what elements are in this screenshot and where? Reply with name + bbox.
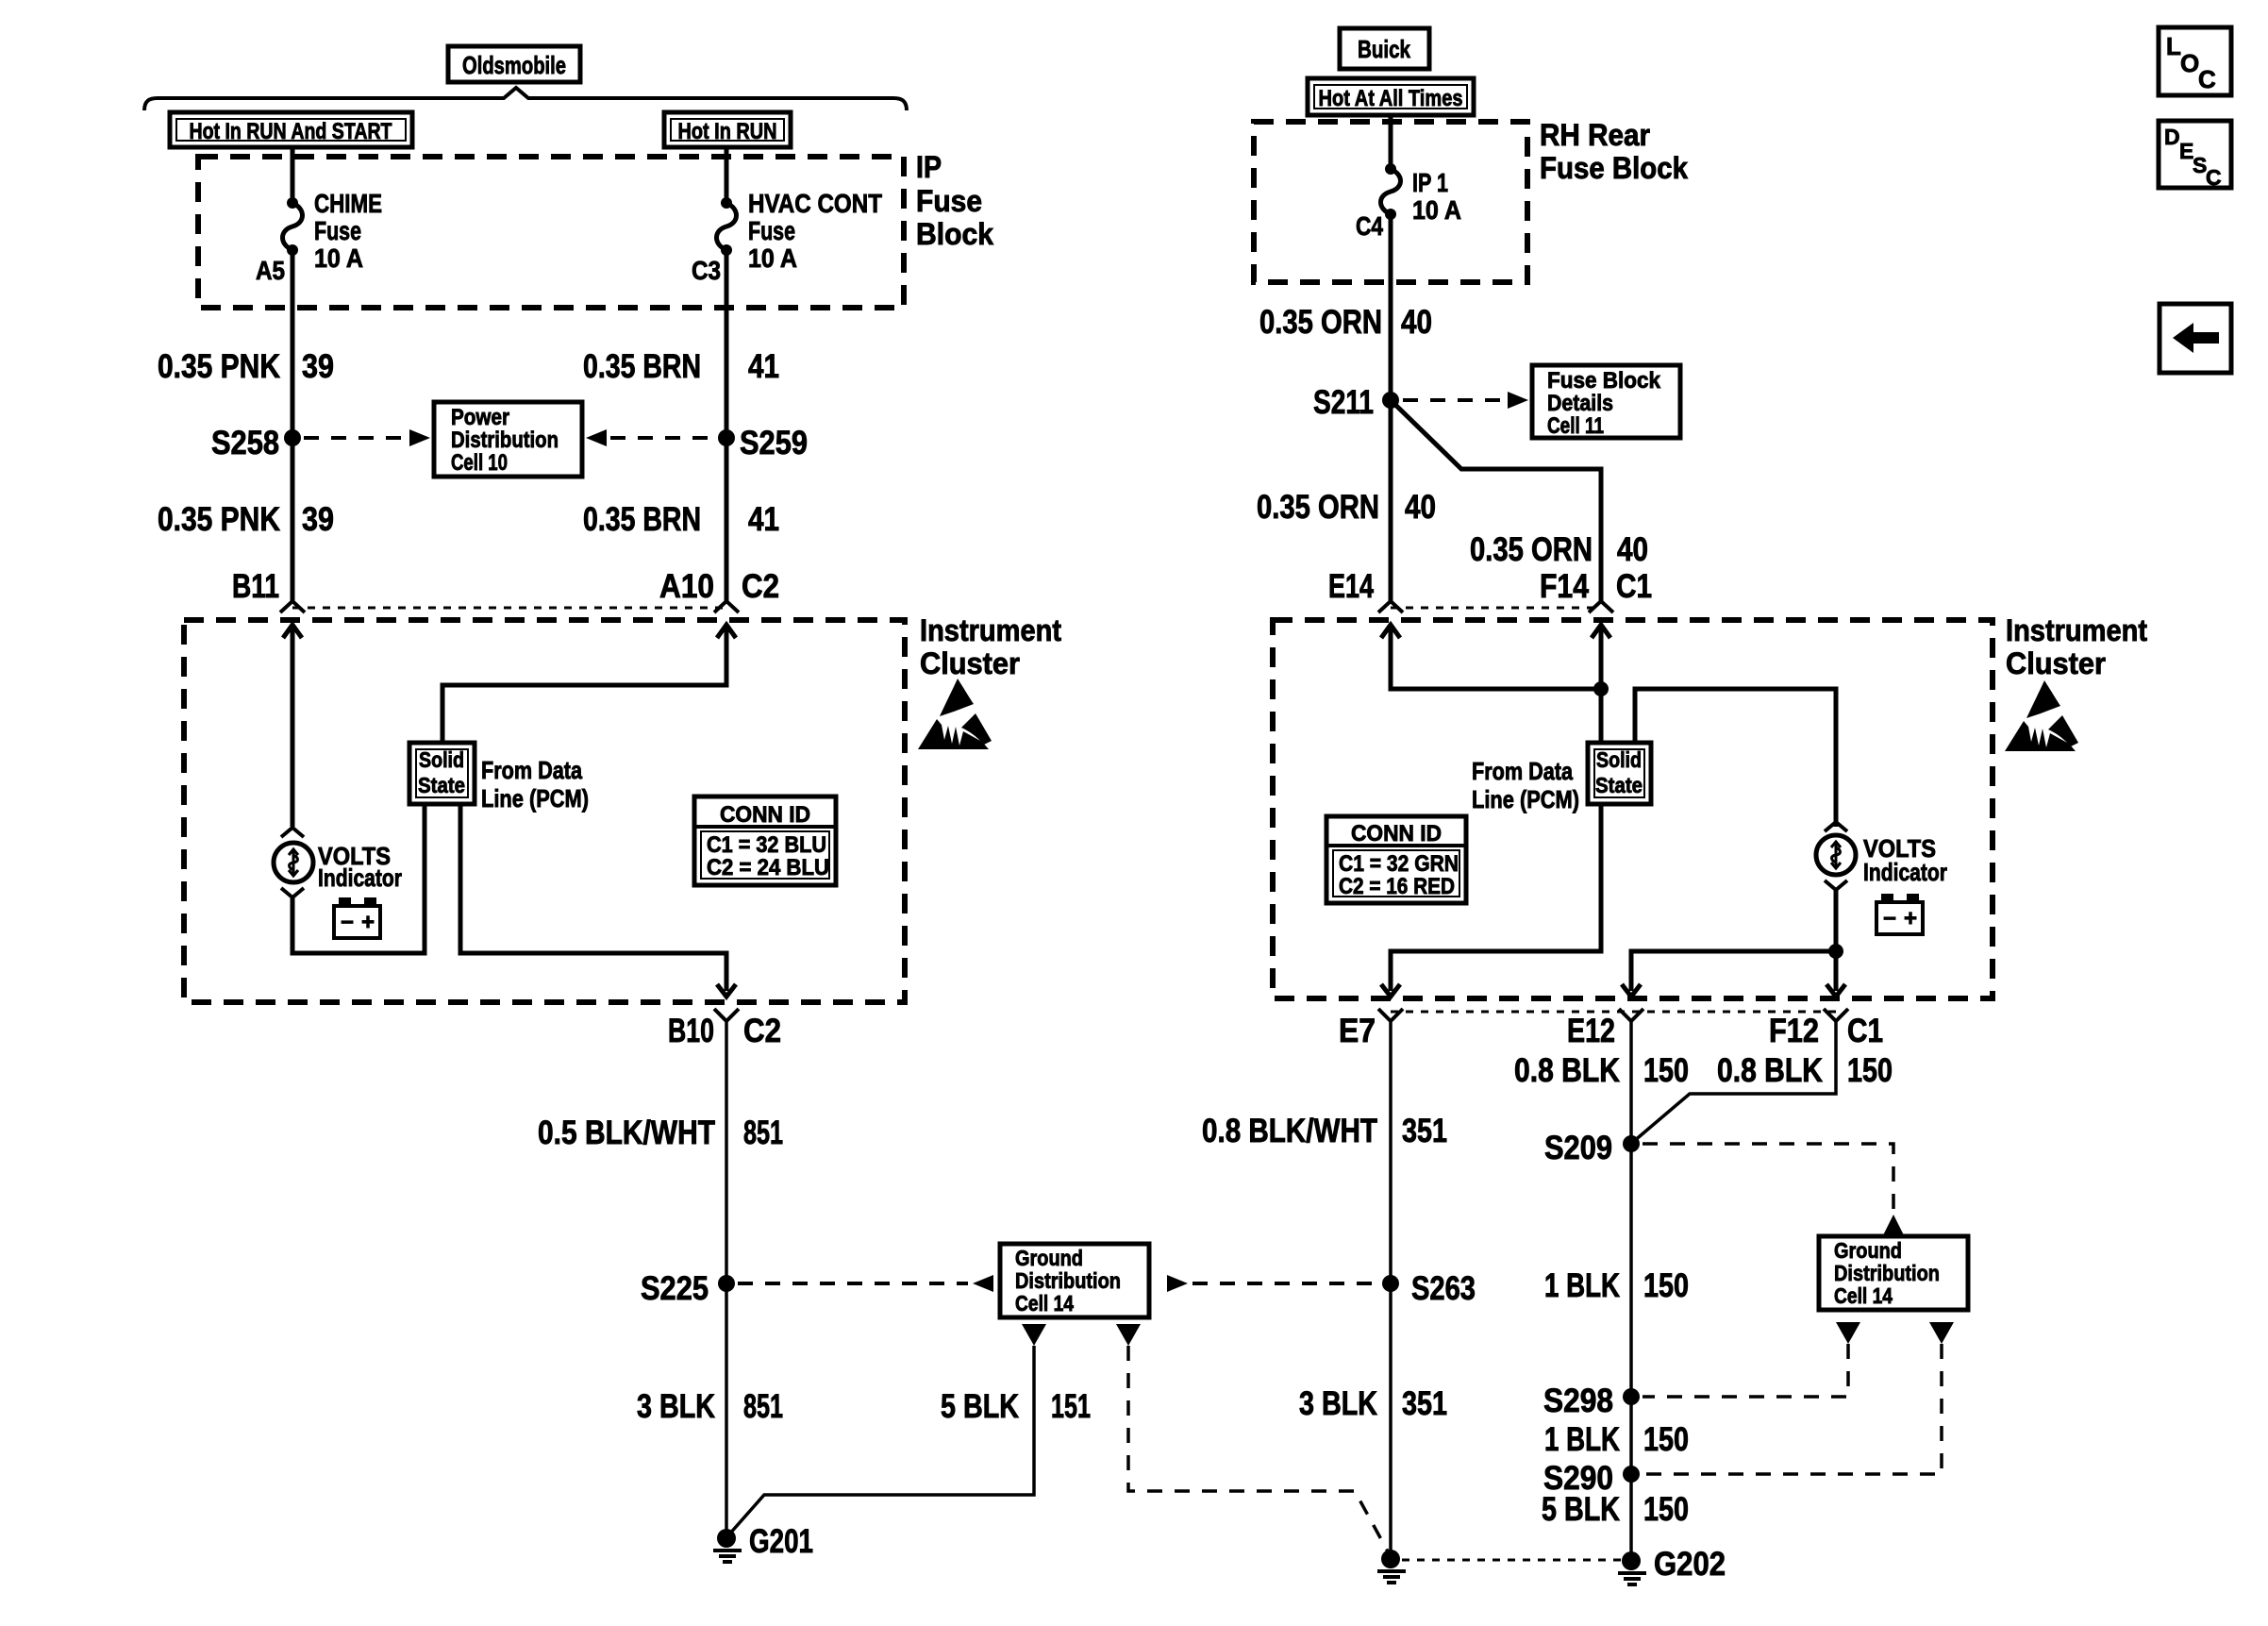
svg-text:State: State — [1595, 773, 1643, 797]
svg-text:Cell 14: Cell 14 — [1015, 1291, 1074, 1316]
dashed leader S209 to Ground Distribution (right) — [1643, 1144, 1904, 1235]
svg-text:Indicator: Indicator — [318, 863, 402, 892]
wire fuse A5 to S258 to B11 — [291, 250, 295, 601]
svg-text:0.8 BLK/WHT: 0.8 BLK/WHT — [1202, 1113, 1377, 1149]
wire label 3 BLK 351 — [1299, 1385, 1447, 1422]
svg-text:S258: S258 — [211, 425, 279, 461]
wire 5 BLK 151 to G201 — [728, 1346, 1034, 1535]
svg-text:1 BLK: 1 BLK — [1544, 1421, 1620, 1458]
legend box DESC — [2159, 121, 2231, 190]
connector chevron F14 — [1589, 601, 1613, 612]
connector chevron above VOLTS (right) — [1825, 822, 1847, 831]
dashed leader to S290 — [1643, 1344, 1942, 1474]
wire label 0.35 ORN 40 (middle) — [1257, 489, 1436, 526]
svg-text:C2: C2 — [743, 1013, 781, 1049]
svg-text:Fuse Block: Fuse Block — [1547, 368, 1661, 394]
wire fuse C4 to S211 to E14 — [1389, 214, 1393, 601]
svg-text:Solid: Solid — [1596, 747, 1642, 772]
legend box back arrow — [2160, 304, 2231, 373]
svg-text:5 BLK: 5 BLK — [941, 1388, 1019, 1425]
connector chevron below VOLTS indicator — [281, 888, 304, 897]
svg-text:RH Rear: RH Rear — [1540, 118, 1650, 152]
svg-text:151: 151 — [1051, 1388, 1091, 1425]
wire F12/C1 to S209 — [1633, 1021, 1836, 1142]
wire junction to E12 exit — [1622, 951, 1836, 997]
label From Data Line (PCM) (left) — [481, 756, 589, 813]
svg-text:351: 351 — [1402, 1385, 1447, 1422]
svg-text:State: State — [418, 773, 465, 797]
svg-text:150: 150 — [1643, 1421, 1689, 1458]
svg-text:10 A: 10 A — [314, 243, 363, 273]
svg-text:E7: E7 — [1339, 1013, 1376, 1049]
svg-text:0.35 ORN: 0.35 ORN — [1259, 304, 1382, 341]
ESD symbol (left cluster) — [918, 679, 992, 749]
svg-text:E14: E14 — [1328, 568, 1374, 605]
wire branch S211 to F14 — [1391, 400, 1601, 601]
svg-text:351: 351 — [1402, 1113, 1447, 1149]
svg-text:0.8 BLK: 0.8 BLK — [1514, 1052, 1620, 1089]
wire label 1 BLK 150 (S209-S298) — [1544, 1267, 1689, 1304]
svg-text:G202: G202 — [1654, 1546, 1726, 1583]
svg-text:F12: F12 — [1769, 1013, 1819, 1049]
svg-text:10 A: 10 A — [1412, 195, 1461, 225]
svg-text:From Data: From Data — [481, 756, 582, 784]
connector face line to G202 — [1402, 1559, 1621, 1562]
svg-text:C: C — [2198, 65, 2216, 93]
connector face line E7-F12 — [1391, 1011, 1836, 1014]
arrow out of Ground Distribution bottom left (right box) — [1836, 1322, 1860, 1344]
reference box Fuse Block Details Cell 11 — [1532, 365, 1680, 439]
wire label 3 BLK 851 — [637, 1388, 783, 1425]
svg-text:S225: S225 — [641, 1270, 709, 1307]
wire Hot At All Times to fuse IP 1 — [1389, 115, 1393, 169]
svg-text:Instrument: Instrument — [920, 613, 1061, 647]
Instrument Cluster dashed outline (left) — [184, 620, 905, 1002]
connector chevron above VOLTS indicator — [281, 828, 304, 837]
svg-text:Ground: Ground — [1834, 1238, 1902, 1263]
label CHIME Fuse 10 A — [314, 189, 382, 273]
reference box Power Distribution Cell 10 — [434, 402, 582, 477]
wire arrow up into cluster at B11 — [283, 625, 302, 827]
connector chevron B10 — [714, 1009, 739, 1021]
svg-text:0.5 BLK/WHT: 0.5 BLK/WHT — [538, 1115, 715, 1151]
svg-text:1 BLK: 1 BLK — [1544, 1267, 1620, 1304]
dashed leader S225 to Ground Distribution — [738, 1275, 993, 1292]
svg-text:−: − — [1883, 906, 1896, 931]
svg-text:150: 150 — [1847, 1052, 1893, 1089]
svg-text:0.35 BRN: 0.35 BRN — [583, 501, 701, 538]
dashed leader S258 to Power Distribution — [304, 429, 430, 446]
svg-text:S259: S259 — [740, 425, 808, 461]
svg-text:40: 40 — [1401, 304, 1432, 341]
wire fuse C3 to S259 to A10 — [725, 250, 729, 601]
wire solid state bottom to E7 exit — [1381, 804, 1601, 997]
connector face line E14-F14 — [1391, 607, 1601, 610]
svg-text:40: 40 — [1617, 531, 1648, 568]
svg-text:10 A: 10 A — [748, 243, 797, 273]
title box Oldsmobile — [448, 46, 580, 82]
svg-text:+: + — [1904, 906, 1917, 931]
connector chevron E12 — [1619, 1009, 1643, 1021]
connector chevron A10 — [714, 601, 739, 612]
svg-text:0.35 PNK: 0.35 PNK — [158, 501, 280, 538]
splice S259 — [718, 425, 808, 461]
label VOLTS Indicator (left) — [318, 842, 402, 892]
wire label 0.35 BRN 41 (upper) — [583, 348, 779, 385]
arrow out of Ground Distribution bottom right (right box) — [1929, 1322, 1954, 1344]
label IP 1 10 A — [1412, 168, 1461, 225]
svg-text:150: 150 — [1643, 1052, 1689, 1089]
wire VOLTS to F12 exit with junction — [1826, 890, 1845, 997]
wire label 0.8 BLK/WHT 351 — [1202, 1113, 1447, 1149]
splice S258 — [211, 425, 301, 461]
svg-text:39: 39 — [302, 348, 334, 385]
dashed leader Ground Distribution to G202 link — [1128, 1346, 1388, 1551]
fuse HVAC CONT 10A (C3) — [717, 197, 737, 256]
svg-text:3 BLK: 3 BLK — [637, 1388, 715, 1425]
svg-text:0.35 PNK: 0.35 PNK — [158, 348, 280, 385]
svg-text:C1 = 32 GRN: C1 = 32 GRN — [1339, 851, 1459, 877]
svg-text:3 BLK: 3 BLK — [1299, 1385, 1377, 1422]
VOLTS indicator gauge (left) — [274, 843, 313, 882]
splice S211 — [1313, 384, 1399, 421]
dashed leader S211 to Fuse Block Details — [1403, 392, 1528, 409]
pins E7 / E12 / F12 / C1 — [1339, 1013, 1883, 1049]
wire label 0.35 PNK 39 (lower) — [158, 501, 334, 538]
wire B10 to S225 to G201 — [725, 1021, 728, 1538]
svg-text:C2: C2 — [742, 568, 779, 605]
svg-text:41: 41 — [748, 501, 779, 538]
svg-text:Cell 11: Cell 11 — [1547, 413, 1604, 439]
svg-text:CHIME: CHIME — [314, 189, 382, 218]
wire VOLTS indicator to solid state left leg — [292, 804, 425, 953]
svg-text:851: 851 — [743, 1115, 783, 1151]
label IP Fuse Block — [916, 150, 993, 251]
svg-text:0.35 BRN: 0.35 BRN — [583, 348, 701, 385]
junction — [1593, 681, 1609, 696]
svg-text:A10: A10 — [659, 568, 714, 605]
svg-text:From Data: From Data — [1472, 757, 1573, 785]
wire label 0.35 PNK 39 (upper) — [158, 348, 334, 385]
dashed leader S259 to Power Distribution — [586, 429, 715, 446]
svg-text:Fuse Block: Fuse Block — [1540, 151, 1688, 185]
svg-text:Instrument: Instrument — [2006, 613, 2147, 647]
wire from Hot In RUN And START to fuse CHIME — [291, 147, 295, 203]
wire label 0.8 BLK 150 (F12) — [1717, 1052, 1893, 1089]
reference box Ground Distribution Cell 14 (right) — [1819, 1236, 1968, 1310]
svg-text:Line (PCM): Line (PCM) — [481, 784, 589, 813]
svg-text:C2 = 24 BLU: C2 = 24 BLU — [707, 855, 829, 880]
svg-text:−: − — [341, 910, 354, 935]
ESD symbol (right cluster) — [2005, 680, 2078, 751]
reference box Ground Distribution Cell 14 (left) — [1000, 1244, 1149, 1317]
fuse CHIME 10A (A5) — [283, 197, 303, 256]
svg-text:Indicator: Indicator — [1863, 858, 1947, 886]
label VOLTS Indicator (right) — [1863, 834, 1947, 886]
svg-text:Line (PCM): Line (PCM) — [1472, 785, 1579, 813]
power label box Hot In RUN And START — [170, 112, 412, 147]
svg-text:Ground: Ground — [1015, 1246, 1083, 1270]
svg-text:Hot In RUN And START: Hot In RUN And START — [190, 119, 392, 144]
svg-text:Solid: Solid — [419, 747, 464, 772]
solid state device (left cluster) — [409, 743, 475, 804]
label From Data Line (PCM) (right) — [1472, 757, 1579, 813]
label Instrument Cluster (right) — [2006, 613, 2147, 680]
splice S209 — [1544, 1130, 1640, 1166]
wire label 0.35 ORN 40 (upper) — [1259, 304, 1432, 341]
Instrument Cluster dashed outline (right) — [1273, 620, 1993, 998]
CONN ID table (left cluster) — [694, 796, 836, 885]
svg-text:41: 41 — [748, 348, 779, 385]
svg-text:Distribution: Distribution — [1015, 1268, 1121, 1293]
svg-text:Cluster: Cluster — [2006, 646, 2106, 680]
wire label 0.35 ORN 40 (branch) — [1470, 531, 1648, 568]
svg-text:Fuse: Fuse — [748, 216, 795, 245]
svg-text:Hot At All Times: Hot At All Times — [1319, 86, 1463, 111]
svg-text:Cluster: Cluster — [920, 646, 1020, 680]
svg-text:C4: C4 — [1356, 211, 1383, 241]
label HVAC CONT Fuse 10 A — [748, 189, 882, 273]
pins A10 / C2 — [659, 568, 779, 605]
arrow into Ground Distribution bottom left — [1022, 1324, 1046, 1346]
wire from Hot In RUN to fuse HVAC CONT — [725, 147, 729, 203]
solid state device (right cluster) — [1588, 743, 1651, 804]
fuse IP 1 10A (C4) — [1381, 163, 1401, 220]
connector chevron F12/C1 — [1824, 1009, 1848, 1021]
svg-text:851: 851 — [743, 1388, 783, 1425]
dashed leader Ground Distribution to S263 — [1167, 1275, 1379, 1292]
svg-text:Power: Power — [451, 405, 509, 430]
ground G201 — [713, 1523, 813, 1562]
wire label 0.35 BRN 41 (lower) — [583, 501, 779, 538]
IP Fuse Block dashed outline — [198, 157, 904, 308]
wire E7 to S263 to ground — [1389, 1021, 1392, 1559]
title box Buick — [1340, 28, 1429, 69]
svg-text:C: C — [2206, 165, 2222, 190]
wire label 5 BLK 151 — [941, 1388, 1091, 1425]
svg-text:O: O — [2180, 49, 2199, 77]
svg-text:C1: C1 — [1616, 568, 1652, 605]
svg-text:Block: Block — [916, 217, 993, 251]
svg-text:Cell 14: Cell 14 — [1834, 1283, 1893, 1308]
pins E14 / F14 / C1 — [1328, 568, 1652, 605]
svg-text:C3: C3 — [692, 256, 721, 285]
svg-text:0.35 ORN: 0.35 ORN — [1470, 531, 1593, 568]
wire label 0.8 BLK 150 (E12) — [1514, 1052, 1689, 1089]
splice S263 — [1382, 1270, 1476, 1307]
svg-text:C1: C1 — [1847, 1013, 1883, 1049]
svg-text:150: 150 — [1643, 1491, 1689, 1528]
svg-text:C1 = 32 BLU: C1 = 32 BLU — [707, 832, 826, 858]
svg-text:C2 = 16 RED: C2 = 16 RED — [1339, 874, 1455, 899]
svg-text:A5: A5 — [256, 256, 285, 285]
label RH Rear Fuse Block — [1540, 118, 1688, 185]
connector chevron E7 — [1378, 1009, 1403, 1021]
wire arrow up into cluster at F14/C1 — [1592, 625, 1610, 743]
svg-text:B10: B10 — [668, 1013, 714, 1049]
svg-text:Details: Details — [1547, 391, 1613, 416]
battery symbol (right cluster) — [1876, 894, 1923, 934]
battery symbol (left cluster) — [334, 897, 380, 938]
svg-text:CONN ID: CONN ID — [1351, 821, 1442, 847]
RH Rear Fuse Block dashed outline — [1254, 122, 1527, 282]
power label box Hot In RUN — [664, 112, 791, 147]
svg-text:S211: S211 — [1313, 384, 1374, 421]
wire solid state to VOLTS indicator (right) — [1635, 689, 1836, 827]
svg-text:39: 39 — [302, 501, 334, 538]
svg-text:IP 1: IP 1 — [1412, 168, 1448, 197]
svg-text:Cell 10: Cell 10 — [451, 450, 508, 476]
connector chevron B11 — [280, 601, 305, 612]
svg-text:F14: F14 — [1540, 568, 1589, 605]
svg-text:B11: B11 — [232, 568, 279, 605]
svg-text:L: L — [2166, 32, 2181, 60]
pins B10 / C2 — [668, 1013, 781, 1049]
brace under Oldsmobile — [144, 88, 907, 110]
connector chevron E14 — [1378, 601, 1403, 612]
svg-text:+: + — [361, 910, 375, 935]
svg-text:S263: S263 — [1411, 1270, 1476, 1307]
power label box Hot At All Times — [1308, 78, 1474, 115]
svg-text:Distribution: Distribution — [451, 427, 559, 453]
wire arrow up into cluster at E14 — [1381, 625, 1601, 689]
arrow into Ground Distribution bottom right — [1116, 1324, 1141, 1346]
svg-text:Hot In RUN: Hot In RUN — [678, 119, 777, 144]
VOLTS indicator gauge (right) — [1816, 835, 1856, 875]
svg-text:0.8 BLK: 0.8 BLK — [1717, 1052, 1823, 1089]
label Instrument Cluster (left) — [920, 613, 1061, 680]
splice S290 — [1543, 1460, 1640, 1497]
wire A10 entry to solid state top — [442, 625, 736, 743]
svg-text:S209: S209 — [1544, 1130, 1612, 1166]
svg-text:0.35 ORN: 0.35 ORN — [1257, 489, 1379, 526]
splice S225 — [641, 1270, 735, 1307]
svg-text:D: D — [2164, 125, 2180, 149]
connector face line B11-A10 — [292, 607, 726, 610]
svg-text:IP: IP — [916, 150, 942, 184]
connector chevron below VOLTS (right) — [1825, 880, 1847, 890]
ground at E7 bottom — [1377, 1550, 1406, 1583]
legend box LOC — [2159, 27, 2231, 95]
ground G202 — [1618, 1546, 1726, 1584]
svg-text:Fuse: Fuse — [916, 184, 982, 218]
wire label 5 BLK 150 — [1542, 1491, 1689, 1528]
svg-text:40: 40 — [1405, 489, 1436, 526]
CONN ID table (right cluster) — [1326, 816, 1466, 903]
svg-text:Oldsmobile: Oldsmobile — [462, 51, 566, 79]
svg-text:5 BLK: 5 BLK — [1542, 1491, 1620, 1528]
svg-text:Buick: Buick — [1358, 35, 1410, 63]
svg-text:Distribution: Distribution — [1834, 1261, 1940, 1285]
svg-text:E12: E12 — [1567, 1013, 1615, 1049]
svg-text:150: 150 — [1643, 1267, 1689, 1304]
svg-text:HVAC CONT: HVAC CONT — [748, 189, 882, 218]
svg-text:G201: G201 — [749, 1523, 813, 1560]
wire solid state right leg to B10 exit — [460, 804, 736, 997]
svg-text:S298: S298 — [1543, 1383, 1613, 1419]
wire E12 to G202 — [1629, 1021, 1633, 1561]
splice S298 — [1543, 1383, 1640, 1419]
wire label 0.5 BLK/WHT 851 — [538, 1115, 783, 1151]
wire label 1 BLK 150 (S298-S290) — [1544, 1421, 1689, 1458]
svg-text:Fuse: Fuse — [314, 216, 361, 245]
dashed leader to S298 — [1643, 1344, 1848, 1397]
svg-text:CONN ID: CONN ID — [720, 802, 810, 828]
